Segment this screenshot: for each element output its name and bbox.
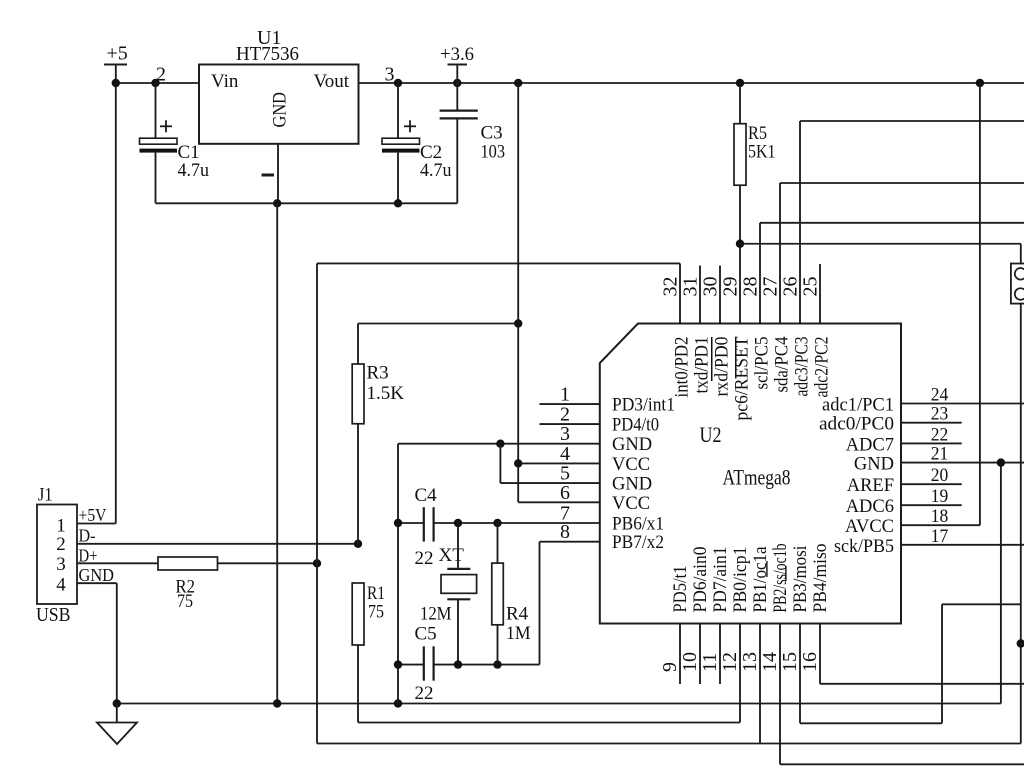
- wire pin 27 to edge: [780, 182, 1024, 184]
- svg-text:PB0/icp1: PB0/icp1: [731, 547, 751, 613]
- junction U1 GND / bus: [273, 199, 281, 207]
- svg-text:16: 16: [799, 652, 821, 672]
- svg-text:PD6/ain0: PD6/ain0: [691, 547, 711, 613]
- svg-text:17: 17: [931, 526, 949, 547]
- power symbol +3.6: [440, 44, 474, 83]
- svg-text:+3.6: +3.6: [440, 44, 474, 65]
- svg-text:GND: GND: [854, 455, 894, 475]
- svg-text:22: 22: [415, 548, 434, 569]
- op-amp U2 ATmega8 body: [600, 324, 901, 624]
- junction ground rail / xtal branch: [394, 699, 402, 707]
- overline PD0: [711, 337, 713, 381]
- svg-text:2: 2: [56, 534, 66, 555]
- wire GND branch vertical x=398: [397, 444, 399, 704]
- resistor R4 1M: [492, 523, 531, 665]
- junction R3 / VCC riser: [514, 319, 522, 327]
- capacitor C5 22: [398, 624, 437, 705]
- svg-text:PB3/mosi: PB3/mosi: [791, 546, 811, 613]
- junction pin 21 GND: [997, 458, 1005, 466]
- wire pin 14 bottom: [779, 624, 781, 765]
- svg-text:4.7u: 4.7u: [420, 160, 452, 181]
- resistor R3 1.5K: [352, 324, 404, 544]
- svg-text:J1: J1: [38, 485, 53, 506]
- wire pin 28 top: [759, 223, 761, 324]
- svg-text:int0/PD2: int0/PD2: [673, 337, 693, 398]
- wire pin 29 top: [739, 244, 741, 324]
- wire D+ branch to pin 32 int0: [317, 262, 680, 264]
- wire pin 26 top: [799, 121, 801, 324]
- wire VCC riser from +3.6 rail: [517, 83, 519, 502]
- wire pin 7 PB6/x1: [434, 522, 600, 524]
- wire right-edge vertical net: [1020, 303, 1022, 744]
- svg-text:2: 2: [156, 64, 166, 86]
- svg-text:C4: C4: [415, 485, 438, 506]
- wire stub to edge: [1021, 643, 1024, 645]
- svg-text:PD3/int1: PD3/int1: [612, 396, 675, 416]
- wire pin 6 VCC: [518, 501, 600, 503]
- wire pin 24 adc1/PC1: [901, 403, 1024, 405]
- junction right edge net: [1017, 639, 1024, 647]
- overline RESET: [735, 337, 737, 379]
- junction AVCC riser: [976, 79, 984, 87]
- svg-text:C3: C3: [481, 123, 503, 144]
- wire bridge horizontal: [942, 603, 1021, 605]
- svg-text:31: 31: [680, 277, 702, 297]
- wire D+ branch bottom to pin 13 net: [317, 743, 1021, 745]
- junction ground rail / U1 GND: [273, 699, 281, 707]
- wire pin 16 to edge: [820, 683, 1024, 685]
- svg-text:29: 29: [720, 277, 742, 297]
- junction C2 / bus: [394, 199, 402, 207]
- svg-text:21: 21: [931, 444, 949, 465]
- junction crystal bottom: [454, 660, 462, 668]
- wire pin 25 top: [819, 264, 821, 324]
- wire J1 GND down: [116, 583, 118, 703]
- wire pin 12 bottom: [739, 624, 741, 723]
- svg-text:24: 24: [931, 385, 949, 406]
- svg-text:AREF: AREF: [847, 476, 894, 496]
- wire GND riser to pin 21: [1000, 463, 1002, 704]
- wire crystal bottom to pin 8 riser: [434, 664, 540, 666]
- wire AVCC riser: [979, 83, 981, 525]
- wire J1 pin1 +5V: [77, 523, 116, 525]
- svg-text:R3: R3: [367, 363, 389, 384]
- wire pin 28 to edge: [760, 222, 1024, 224]
- wire pin 9 bottom: [679, 624, 681, 685]
- svg-text:+5V: +5V: [79, 505, 107, 525]
- ground symbol: [97, 704, 137, 745]
- junction R4 top: [493, 519, 501, 527]
- wire pin 8 PB7/x2: [540, 541, 600, 543]
- wire pin 5 GND: [500, 482, 599, 484]
- junction node 2 / C1: [151, 79, 159, 87]
- svg-text:VCC: VCC: [612, 455, 650, 475]
- crystal XT 12M: [420, 523, 477, 665]
- svg-text:txd/PD1: txd/PD1: [693, 337, 713, 394]
- underline oc1: [766, 561, 767, 577]
- wire pin 27 top: [779, 183, 781, 324]
- wire J1 pin4 GND: [77, 582, 117, 584]
- svg-text:PB2/ss/oc1b: PB2/ss/oc1b: [771, 544, 791, 613]
- svg-text:PB4/miso: PB4/miso: [811, 544, 831, 613]
- svg-text:22: 22: [415, 683, 434, 704]
- svg-text:VCC: VCC: [612, 494, 650, 514]
- wire +5 rail to Vin: [116, 82, 199, 84]
- wire R1 bottom to pin 12: [358, 722, 740, 724]
- svg-text:ATmega8: ATmega8: [723, 465, 791, 490]
- svg-text:XT: XT: [439, 545, 465, 566]
- svg-text:22: 22: [931, 424, 949, 445]
- svg-text:ADC7: ADC7: [846, 435, 894, 455]
- svg-text:GND: GND: [271, 92, 291, 128]
- wire pin 23 adc0/PC0: [901, 422, 962, 424]
- junction R5 top: [736, 79, 744, 87]
- svg-text:PD7/ain1: PD7/ain1: [711, 547, 731, 613]
- resistor R1 75: [352, 583, 385, 723]
- wire pin 14 to edge: [780, 763, 1024, 765]
- svg-text:12M: 12M: [420, 604, 452, 625]
- svg-text:sda/PC4: sda/PC4: [773, 337, 793, 393]
- wire pin 19 ADC6: [901, 504, 962, 506]
- wire pin 26 to edge: [800, 120, 1024, 122]
- capacitor C4 22: [398, 485, 437, 569]
- svg-text:23: 23: [931, 404, 949, 425]
- svg-text:GND: GND: [79, 565, 115, 585]
- wire D+ branch vertical: [316, 263, 318, 743]
- wire pin 15 to bridge: [800, 722, 942, 724]
- wire pin15 bridge vertical: [941, 604, 943, 723]
- wire U1 GND pin down: [277, 144, 279, 204]
- wire J1 pin3 D+ to R2: [77, 562, 158, 564]
- svg-text:25: 25: [800, 277, 822, 297]
- wire pin 30 top: [719, 266, 721, 324]
- wire R2 to D+ node: [218, 562, 318, 564]
- svg-text:10: 10: [679, 652, 701, 672]
- wire pin 4 VCC: [518, 462, 600, 464]
- svg-text:20: 20: [931, 465, 949, 486]
- svg-text:75: 75: [177, 591, 193, 612]
- wire pin 10 bottom: [699, 624, 701, 685]
- svg-text:PB7/x2: PB7/x2: [612, 533, 664, 553]
- wire J1 pin2 D- to R1/R3 node: [77, 543, 358, 545]
- svg-text:4: 4: [56, 575, 66, 596]
- svg-text:AVCC: AVCC: [845, 517, 894, 537]
- svg-text:R4: R4: [506, 604, 529, 625]
- capacitor C2 4.7u: [382, 83, 452, 203]
- wire pin 31 top: [699, 266, 701, 324]
- svg-text:4.7u: 4.7u: [178, 160, 210, 181]
- wire pin 18 AVCC: [901, 524, 980, 526]
- svg-text:12: 12: [719, 652, 741, 672]
- svg-text:USB: USB: [36, 604, 71, 626]
- svg-text:15: 15: [779, 652, 801, 672]
- svg-text:75: 75: [368, 602, 384, 623]
- junction D- / R3 / R1: [354, 540, 362, 548]
- svg-text:32: 32: [660, 277, 682, 297]
- svg-text:103: 103: [481, 142, 506, 163]
- svg-text:8: 8: [560, 521, 570, 543]
- svg-text:1M: 1M: [506, 623, 531, 644]
- junction +5 rail: [112, 79, 120, 87]
- svg-text:1: 1: [560, 384, 570, 406]
- wire RESET to connector: [740, 243, 1021, 245]
- wire pin 1 stub: [540, 403, 600, 405]
- svg-text:rxd/PD0: rxd/PD0: [713, 337, 733, 397]
- svg-text:PD4/t0: PD4/t0: [612, 416, 659, 436]
- svg-text:+5: +5: [107, 43, 128, 65]
- connector J1 USB: [36, 485, 77, 627]
- junction node 3 / C2: [394, 79, 402, 87]
- svg-text:PB1/oc1a: PB1/oc1a: [751, 547, 771, 613]
- power symbol +5: [104, 43, 128, 524]
- svg-text:28: 28: [740, 277, 762, 297]
- junction C5 / GND branch: [394, 660, 402, 668]
- svg-text:HT7536: HT7536: [236, 43, 299, 65]
- junction VCC riser: [514, 79, 522, 87]
- svg-text:adc2/PC2: adc2/PC2: [813, 337, 833, 398]
- svg-text:PB6/x1: PB6/x1: [612, 515, 664, 535]
- wire pin 21 GND: [901, 462, 1024, 464]
- capacitor C1 4.7u: [140, 83, 210, 203]
- wire connector drop: [1020, 244, 1022, 264]
- svg-text:C5: C5: [415, 624, 437, 645]
- junction R4 bottom: [493, 660, 501, 668]
- svg-text:4: 4: [560, 443, 570, 465]
- capacitor C3 103: [440, 83, 505, 203]
- junction pin4 VCC riser: [514, 459, 522, 467]
- svg-text:sck/PB5: sck/PB5: [834, 537, 894, 557]
- junction +3.6 / C3: [453, 79, 461, 87]
- svg-text:GND: GND: [612, 435, 652, 455]
- svg-text:26: 26: [780, 277, 802, 297]
- svg-text:adc1/PC1: adc1/PC1: [822, 396, 894, 416]
- junction R5 / RESET: [736, 240, 744, 248]
- wire pin 32 top: [679, 263, 681, 323]
- svg-text:PD5/t1: PD5/t1: [671, 566, 691, 613]
- underline ss: [785, 566, 786, 581]
- svg-text:30: 30: [700, 277, 722, 297]
- svg-text:3: 3: [560, 423, 570, 445]
- svg-text:Vin: Vin: [211, 71, 239, 92]
- svg-text:1.5K: 1.5K: [367, 383, 405, 404]
- wire pin 11 bottom: [719, 624, 721, 685]
- wire pin 3 GND: [398, 443, 600, 445]
- wire pin 17 sck/PB5: [901, 544, 1024, 546]
- wire pin 13 bottom: [759, 624, 761, 744]
- svg-text:19: 19: [931, 486, 949, 507]
- svg-text:18: 18: [931, 506, 949, 527]
- wire U1 GND to ground rail: [276, 203, 278, 703]
- junction D+ branch: [313, 559, 321, 567]
- svg-text:D-: D-: [79, 526, 96, 546]
- junction pin3/pin5 GND: [496, 440, 504, 448]
- wire ground rail: [117, 703, 1001, 705]
- wire pin 15 bottom: [799, 624, 801, 724]
- resistor R5 5K1: [734, 83, 776, 244]
- svg-text:scl/PC5: scl/PC5: [753, 337, 773, 390]
- svg-text:adc3/PC3: adc3/PC3: [793, 337, 813, 397]
- junction ground rail / J1: [113, 699, 121, 707]
- junction C4 / GND branch: [394, 519, 402, 527]
- wire R3 top to VCC riser: [358, 323, 518, 325]
- svg-text:27: 27: [760, 277, 782, 297]
- wire pin 2 stub: [540, 423, 600, 425]
- svg-text:adc0/PC0: adc0/PC0: [819, 415, 894, 435]
- svg-text:5K1: 5K1: [748, 142, 776, 163]
- regulator U1 HT7536: [199, 27, 359, 144]
- minus label at U1 GND: [262, 174, 275, 177]
- svg-text:9: 9: [659, 662, 681, 672]
- svg-text:13: 13: [739, 652, 761, 672]
- wire capacitor bottom bus: [156, 202, 458, 204]
- svg-text:U2: U2: [700, 422, 722, 447]
- wire pin 22 ADC7: [901, 442, 962, 444]
- svg-text:6: 6: [560, 482, 570, 504]
- svg-text:GND: GND: [612, 475, 652, 495]
- wire pin 16 bottom: [819, 624, 821, 684]
- svg-text:ADC6: ADC6: [846, 497, 894, 517]
- junction crystal top: [454, 519, 462, 527]
- svg-text:3: 3: [56, 554, 66, 575]
- wire pin 20 AREF: [901, 483, 962, 485]
- connector header (cut off): [1011, 264, 1024, 304]
- svg-text:3: 3: [385, 64, 395, 86]
- svg-text:11: 11: [699, 653, 721, 672]
- wire Vout rail: [359, 82, 1024, 84]
- svg-text:Vout: Vout: [314, 71, 350, 92]
- svg-text:14: 14: [759, 652, 781, 672]
- resistor R2 75: [158, 557, 218, 612]
